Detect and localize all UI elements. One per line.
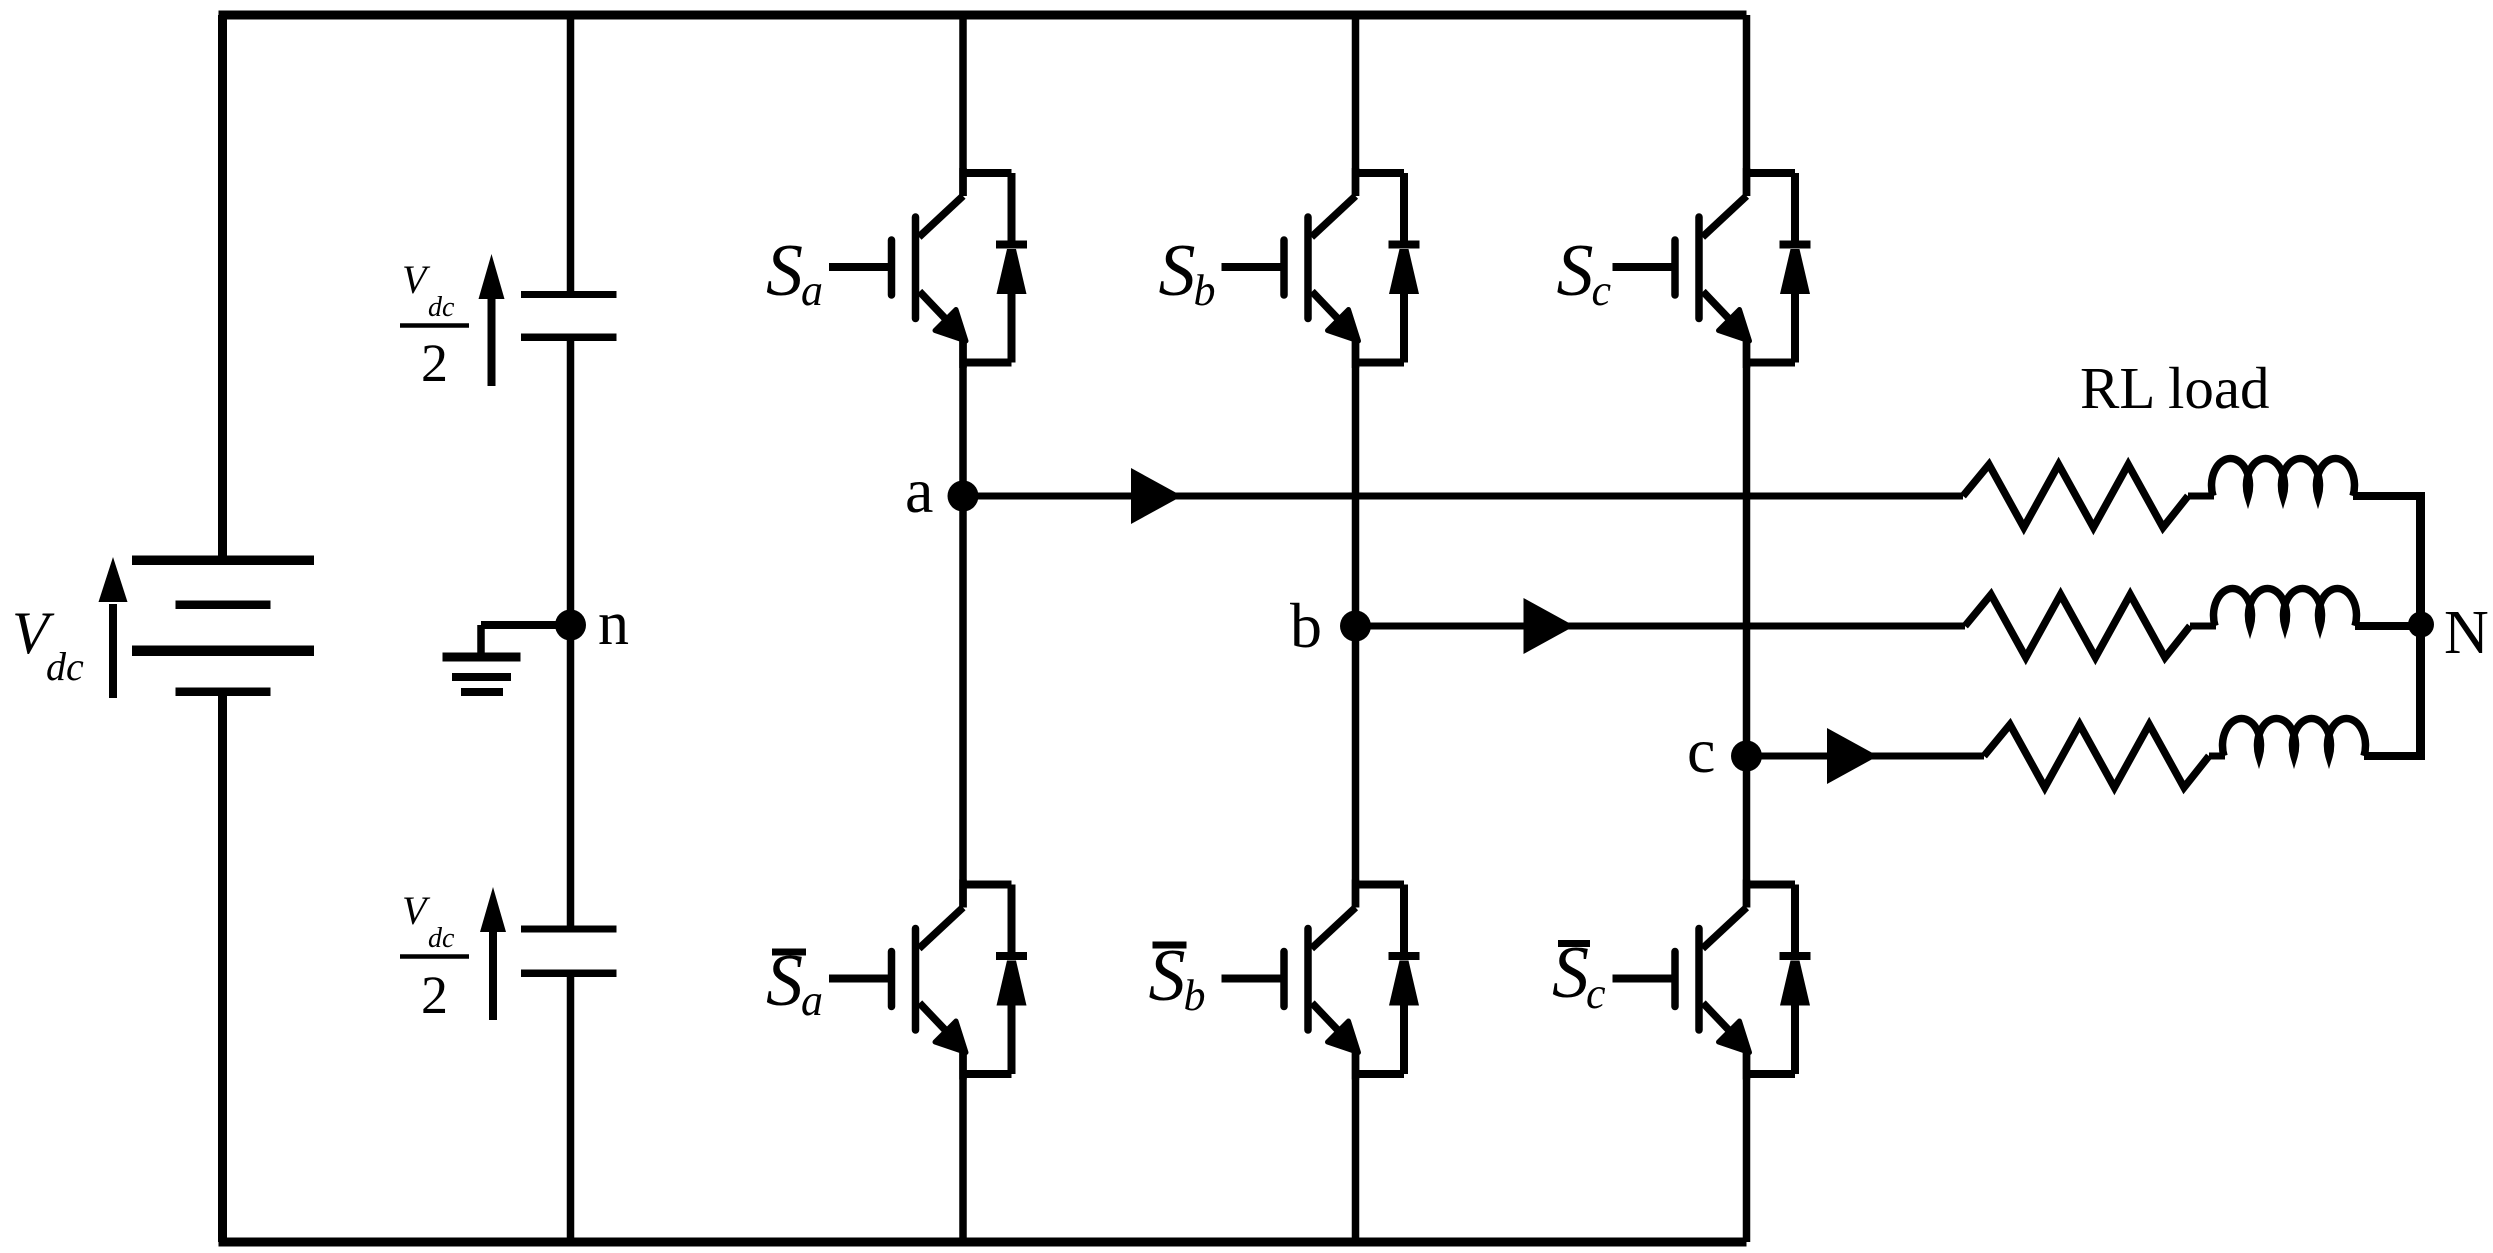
svg-text:S: S xyxy=(1159,230,1196,312)
arrow: phase a current direction xyxy=(1131,468,1182,524)
resistor R (phase a) xyxy=(1963,465,2188,528)
ground symbol at node n xyxy=(443,625,571,692)
svg-text:N: N xyxy=(2444,599,2489,667)
node N junction dot xyxy=(2408,612,2434,638)
label Sc-bar (gate signal, bottom switch leg c) xyxy=(1552,932,1606,1018)
svg-text:a: a xyxy=(905,455,933,526)
wire: leg a from top switch emitter to node a xyxy=(959,336,967,496)
transistor Sb-bar (bottom switch leg b) (IGBT with antiparallel diode) xyxy=(1222,880,1420,1080)
transistor Sc (top switch leg c) (IGBT with antiparallel diode) xyxy=(1613,168,1811,368)
wire: phase a between resistor and inductor xyxy=(2188,493,2214,500)
inductor L (phase b) xyxy=(2214,588,2357,626)
wire: from lower capacitor to bottom rail xyxy=(567,977,575,1242)
svg-text:dc: dc xyxy=(428,923,455,954)
wire: phase b between resistor and inductor xyxy=(2190,623,2216,630)
battery Vdc plate 4 (short, bottom) xyxy=(176,688,271,697)
wire: phase b output from node b xyxy=(1356,623,1966,630)
svg-text:c: c xyxy=(1586,969,1606,1018)
wire: leg c from bottom switch emitter to bottom rail xyxy=(1743,1048,1751,1243)
wire: leg a from bottom switch emitter to bottom rail xyxy=(959,1048,967,1243)
label Sb (gate signal, top switch leg b) xyxy=(1159,230,1216,315)
wire: left vertical from battery - down to bottom rail xyxy=(218,695,227,1242)
arrow: phase b current direction xyxy=(1524,598,1575,654)
svg-text:a: a xyxy=(801,266,823,315)
svg-text:2: 2 xyxy=(421,965,448,1025)
svg-text:b: b xyxy=(1184,971,1206,1020)
svg-text:S: S xyxy=(766,230,803,312)
wire: top DC bus (positive rail) xyxy=(219,11,1747,20)
inductor L (phase a) xyxy=(2212,458,2355,496)
transistor Sa-bar (bottom switch leg a) (IGBT with antiparallel diode) xyxy=(829,880,1027,1080)
arrow: Vdc voltage reference arrow (up) xyxy=(99,557,128,698)
wire: phase c output from node c xyxy=(1747,753,1985,760)
capacitor C1 (upper, Vdc/2) xyxy=(521,291,617,341)
node a junction dot xyxy=(948,481,979,512)
wire: leg c collector drop from top rail xyxy=(1743,15,1751,196)
transistor Sc-bar (bottom switch leg c) (IGBT with antiparallel diode) xyxy=(1613,880,1811,1080)
svg-text:c: c xyxy=(1687,715,1715,786)
transistor Sa (top switch leg a) (IGBT with antiparallel diode) xyxy=(829,168,1027,368)
wire: capacitor branch from top rail to upper capacitor xyxy=(567,15,575,292)
battery Vdc plate 2 (short) xyxy=(176,601,271,610)
wire: bottom DC bus (negative rail) xyxy=(219,1238,1747,1247)
wire: phase a output from node a xyxy=(963,493,1963,500)
battery Vdc plate 3 (long) xyxy=(132,646,314,657)
svg-text:S: S xyxy=(1557,230,1594,312)
wire: phase a from inductor to right bus corner xyxy=(2353,492,2420,500)
svg-text:b: b xyxy=(1194,266,1216,315)
wire: phase c from inductor to right bus corner xyxy=(2364,752,2420,760)
wire: left vertical from top rail down to battery + xyxy=(218,15,227,556)
wire: leg a collector drop from top rail xyxy=(959,15,967,196)
wire: leg b collector drop from top rail xyxy=(1352,15,1360,196)
label Sb-bar (gate signal, bottom switch leg b) xyxy=(1149,935,1206,1020)
svg-text:RL load: RL load xyxy=(2080,355,2270,421)
arrow: phase c current direction xyxy=(1827,728,1878,784)
label Vdc/2 (lower capacitor voltage) xyxy=(400,888,469,1025)
wire: leg b from node b to bottom switch xyxy=(1352,626,1360,908)
wire: leg b from top switch emitter to node b xyxy=(1352,336,1360,626)
transistor Sb (top switch leg b) (IGBT with antiparallel diode) xyxy=(1222,168,1420,368)
label Vdc/2 (upper capacitor voltage) xyxy=(400,257,469,393)
node c junction dot xyxy=(1731,741,1762,772)
arrow: lower Vdc/2 reference arrow (up) xyxy=(480,887,506,1020)
wire: from upper capacitor to node n xyxy=(567,341,575,626)
svg-text:2: 2 xyxy=(421,333,448,393)
svg-text:c: c xyxy=(1592,266,1612,315)
svg-text:dc: dc xyxy=(46,644,84,689)
battery Vdc plate 1 (long, top) xyxy=(132,556,314,566)
node b junction dot xyxy=(1340,611,1371,642)
node n junction dot xyxy=(555,610,586,641)
wire: phase c between resistor and inductor xyxy=(2209,753,2225,760)
label Sa (gate signal, top switch leg a) xyxy=(766,230,823,315)
wire: from node n to lower capacitor xyxy=(567,625,575,927)
label Sa-bar (gate signal, bottom switch leg a) xyxy=(766,940,823,1025)
arrow: upper Vdc/2 reference arrow (up) xyxy=(479,254,505,386)
resistor R (phase c) xyxy=(1984,725,2209,788)
svg-text:n: n xyxy=(598,590,629,658)
wire: leg a from node a to bottom switch xyxy=(959,496,967,908)
label Sc (gate signal, top switch leg c) xyxy=(1557,230,1612,315)
wire: leg b from bottom switch emitter to bottom rail xyxy=(1352,1048,1360,1243)
wire: phase b from inductor to node N xyxy=(2355,622,2420,630)
svg-text:S: S xyxy=(766,940,803,1022)
wire: leg c from node c to bottom switch xyxy=(1743,756,1751,908)
wire: leg c from top switch emitter to node c xyxy=(1743,336,1751,756)
svg-text:dc: dc xyxy=(428,292,455,323)
wire: load neutral bus (right vertical) xyxy=(2416,492,2425,760)
svg-text:b: b xyxy=(1290,590,1322,661)
inductor L (phase c) xyxy=(2223,718,2366,756)
resistor R (phase b) xyxy=(1965,595,2190,658)
capacitor C2 (lower, Vdc/2) xyxy=(521,926,617,978)
label Vdc (source voltage) xyxy=(12,600,84,689)
svg-text:S: S xyxy=(1149,935,1186,1017)
svg-text:S: S xyxy=(1552,932,1589,1014)
svg-text:a: a xyxy=(801,976,823,1025)
